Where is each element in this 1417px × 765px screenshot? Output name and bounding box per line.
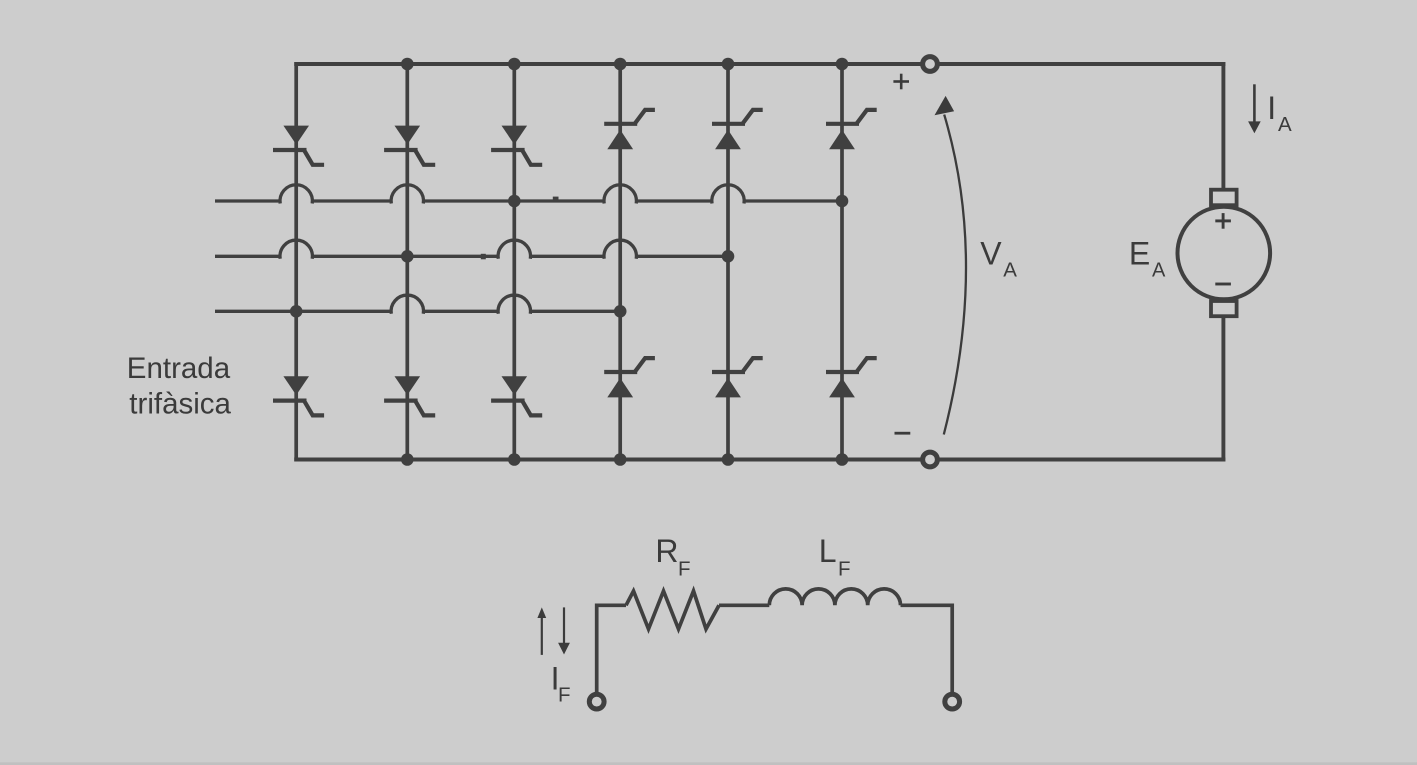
minus sign inside armature [1215,283,1231,286]
svg-text:trifàsica: trifàsica [129,387,231,420]
wire: right armature lead lower [1221,317,1225,460]
terminal + circle at top bus [923,57,938,72]
svg-text:A: A [1003,259,1017,282]
plus sign at top terminal [893,74,909,90]
thyristor SCR9 (fwd bridge leg3 bottom) [491,376,542,415]
bottom edge strip [0,762,1417,765]
I_A arrow [1248,84,1261,133]
field circuit [597,589,953,693]
artifact tick on phase line a [553,197,559,201]
thyristor SCR2 (fwd bridge leg2 top) [384,126,435,165]
plus sign inside armature [1215,213,1231,229]
wire: converter leg 3 [512,64,516,460]
thyristor SCR5 (rev bridge leg5 top) [712,110,763,149]
wire: converter leg 6 [840,64,844,460]
thyristor SCR12 (rev bridge leg6 bottom) [826,358,877,397]
svg-text:A: A [1152,260,1166,282]
minus sign at bottom terminal [895,432,911,435]
resistor R_F [626,591,719,629]
thyristor SCR6 (rev bridge leg6 top) [826,110,877,149]
svg-text:F: F [558,684,571,707]
svg-text:F: F [838,557,851,580]
thyristor SCR11 (rev bridge leg5 bottom) [712,358,763,397]
inductor L_F [769,589,900,605]
I_F down arrow [558,607,570,654]
junction dots [290,58,848,466]
field terminal left [589,694,604,709]
wire: converter leg 4 [618,64,622,460]
artifact tick on phase line b [481,254,486,259]
svg-text:I: I [1267,90,1276,126]
svg-text:E: E [1129,235,1150,271]
phase line a (top) with crossover hops [215,185,842,204]
field terminal right [945,694,960,709]
thyristor SCR10 (rev bridge leg4 bottom) [604,358,655,397]
phase line b (middle) with crossover hops [215,240,728,259]
svg-text:V: V [980,236,1002,272]
wire: converter leg 5 [726,64,730,460]
wire: field right lead [901,605,953,693]
thyristor SCR8 (fwd bridge leg2 bottom) [384,376,435,415]
brush bottom [1211,301,1237,316]
wire: between R_F and L_F [719,603,769,607]
thyristor SCR3 (fwd bridge leg3 top) [491,126,542,165]
wire: field left lead [597,605,626,693]
wire: right armature lead upper [1221,64,1225,190]
phase line c (bottom) with crossover hops [215,295,620,314]
thyristor SCR1 (fwd bridge leg1 top) [273,126,324,165]
wire: bottom DC bus [296,458,1223,462]
svg-text:L: L [819,533,837,569]
DC machine armature circle [1178,207,1271,300]
wire: top DC bus [296,62,1223,66]
wire: converter leg 1 [294,64,298,460]
terminal - circle at bottom bus [923,452,938,467]
brush top [1211,190,1237,206]
svg-text:A: A [1278,113,1292,136]
I_F up arrow [537,607,546,655]
wire: converter leg 2 [405,64,409,460]
V_A arc arrow [935,96,967,435]
svg-text:R: R [655,533,678,569]
svg-text:Entrada: Entrada [127,352,231,385]
svg-text:F: F [678,557,691,580]
thyristor SCR4 (rev bridge leg4 top) [604,110,655,149]
thyristor SCR7 (fwd bridge leg1 bottom) [273,376,324,415]
